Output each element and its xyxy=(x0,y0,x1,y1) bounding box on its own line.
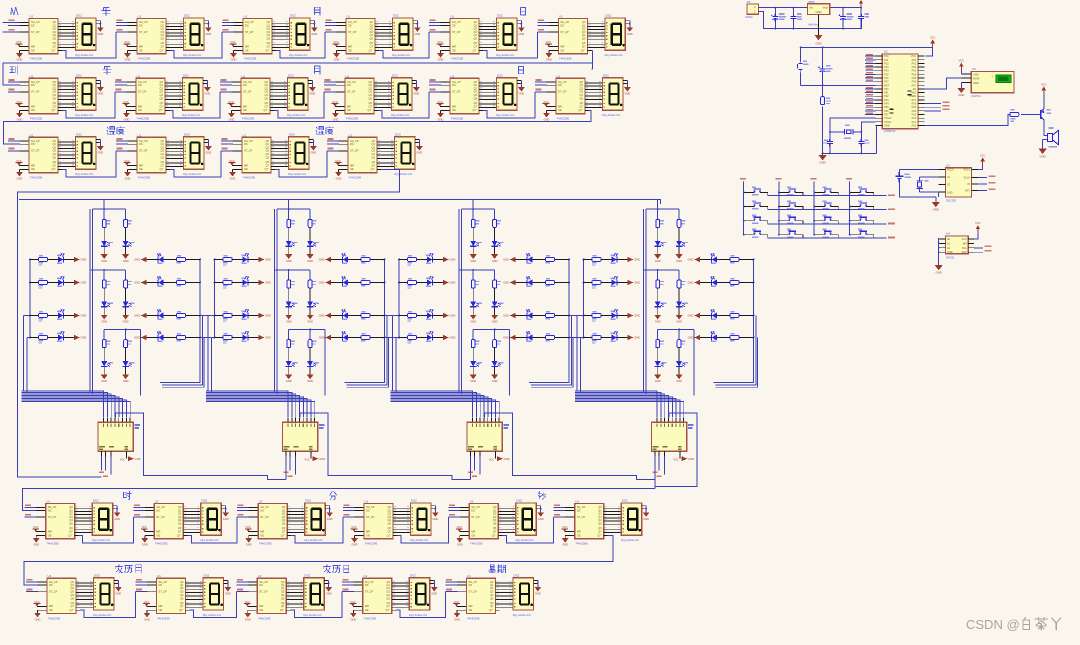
svg-text:Volt Reg: Volt Reg xyxy=(808,22,819,26)
label row2-caption2 xyxy=(315,66,320,74)
svg-text:Vout: Vout xyxy=(823,6,829,10)
wire keypad column 2 xyxy=(778,182,780,235)
svg-text:ALE: ALE xyxy=(911,92,916,95)
button S12 keypad r3c3 xyxy=(814,220,822,222)
svg-text:VCC2: VCC2 xyxy=(947,169,954,172)
wire keypad row bus 1 xyxy=(768,195,887,197)
74HC595 U25 + 7-seg display module row5-1 xyxy=(26,573,122,621)
wire LED-block4 cluster3 top xyxy=(657,329,694,331)
resistor + LED row LED-block2 L3 xyxy=(214,310,271,322)
svg-text:P14: P14 xyxy=(884,70,889,73)
resistor + LED row LED-block4 L4 xyxy=(583,332,640,344)
svg-text:U4: U4 xyxy=(946,232,950,236)
74HC595 U12 + 7-seg display module row2-6 xyxy=(535,74,631,122)
resistor + LED row LED-block2 R3 xyxy=(319,310,386,320)
label row5-caption1 xyxy=(324,565,331,573)
resistor + LED + ground branch LED-block3 c1a xyxy=(470,209,482,263)
button S6 keypad r2c1 xyxy=(744,206,752,208)
ground DHT11 xyxy=(960,83,962,88)
VCC power rail arrow xyxy=(860,3,862,8)
shift register driver U34 74HC595 LED-block4 xyxy=(652,413,698,477)
button S2 keypad r1c1 xyxy=(744,192,752,194)
resistor + LED + ground branch LED-block2 c3a xyxy=(285,330,297,384)
wire LED-block4 gap risers xyxy=(716,316,758,388)
wire serial row3-1 to row3-2 xyxy=(62,151,116,177)
svg-text:P03: P03 xyxy=(912,70,917,73)
transistor Q1 PNP xyxy=(1040,110,1042,119)
label row1-caption3 xyxy=(521,8,526,15)
wire R2 to transistor base xyxy=(1021,113,1041,115)
capacitor C1 xyxy=(829,132,831,139)
wire LED-block4 frame xyxy=(643,209,694,395)
74HC595 U10 + 7-seg display module row2-4 xyxy=(324,74,420,122)
wire driver chain block2 to block3 xyxy=(328,457,470,480)
button S3 keypad r1c2 xyxy=(779,192,787,194)
wire LED-block1 left bus xyxy=(29,260,31,338)
wire driver chain block3 to block4 xyxy=(513,457,655,480)
svg-text:DS1302: DS1302 xyxy=(946,199,957,203)
svg-text:GND: GND xyxy=(973,81,979,85)
button S9 keypad r2c4 xyxy=(850,206,858,208)
resistor + LED + ground branch LED-block2 c2b xyxy=(307,270,319,324)
wire LED row interconnects xyxy=(200,316,584,338)
svg-text:P06: P06 xyxy=(912,81,917,84)
resistor + LED row LED-block3 L4 xyxy=(398,332,455,344)
74HC595 U4 + 7-seg display module row1-4 xyxy=(325,14,421,62)
svg-text:P11: P11 xyxy=(884,59,889,62)
svg-text:P07: P07 xyxy=(912,84,917,87)
wire LED-block3 bus fan xyxy=(391,391,500,417)
svg-text:CON2: CON2 xyxy=(745,15,753,19)
wire LED-block4 bus fan xyxy=(575,391,684,417)
svg-text:PSEN: PSEN xyxy=(909,95,916,98)
svg-text:AT89C52: AT89C52 xyxy=(884,129,896,133)
74HC595 U29 + 7-seg display module row5-5 xyxy=(446,573,542,621)
svg-text:GND: GND xyxy=(815,42,821,46)
svg-text:DATA: DATA xyxy=(973,76,980,80)
wire serial row1-2 to row1-3 xyxy=(170,32,222,58)
svg-text:GND: GND xyxy=(884,124,890,127)
wire driver chain block1 to block2 xyxy=(144,457,286,480)
wire keypad row bus 3 xyxy=(768,223,887,225)
resistor + LED + ground branch LED-block2 c1a xyxy=(285,209,297,263)
resistor + LED + ground branch LED-block3 c1b xyxy=(491,209,503,263)
svg-text:P21: P21 xyxy=(912,121,917,124)
wire serial row5-4 to row5-5 xyxy=(396,592,446,618)
wire LED-block3 cluster3 top xyxy=(473,329,510,331)
74HC595 U5 + 7-seg display module row1-5 xyxy=(429,14,525,62)
svg-text:P15: P15 xyxy=(884,73,889,76)
wire LED-block2 cluster1 top xyxy=(277,208,310,210)
wire MCU to DHT11 data xyxy=(925,78,962,89)
wire chain block4 to row4 xyxy=(23,457,698,511)
svg-text:P1: P1 xyxy=(747,0,751,4)
resistor + LED + ground branch LED-block1 c1a xyxy=(101,209,113,263)
wire LED-block4 right bus xyxy=(714,260,754,383)
74HC595 U26 + 7-seg display module row5-2 xyxy=(136,573,232,621)
74HC595 U9 + 7-seg display module row2-3 xyxy=(220,74,316,122)
VCC DS1302 xyxy=(978,165,983,169)
wire LED-block3 left bus xyxy=(398,260,400,338)
ground reset xyxy=(818,155,826,160)
svg-text:IO: IO xyxy=(967,183,970,186)
svg-text:U3: U3 xyxy=(946,164,950,168)
resistor + LED row LED-block2 L4 xyxy=(214,332,271,344)
74HC595 U8 + 7-seg display module row2-2 xyxy=(115,74,211,122)
74HC595 U3 + 7-seg display module row1-3 xyxy=(222,14,318,62)
svg-text:P02: P02 xyxy=(912,66,917,69)
ground speaker xyxy=(1038,149,1046,154)
wire XTAL1 xyxy=(861,122,875,132)
74HC595 U2 + 7-seg display module row1-2 xyxy=(116,14,212,62)
74HC595 U7 + 7-seg display module row2-1 xyxy=(8,74,104,122)
wire LED-block2 left bus xyxy=(214,260,216,338)
svg-text:P36: P36 xyxy=(884,110,889,113)
svg-text:RST: RST xyxy=(965,190,970,193)
wire keypad row bus 2 xyxy=(768,209,887,211)
svg-text:WP: WP xyxy=(963,243,967,246)
resistor + LED + ground branch LED-block1 c2b xyxy=(122,270,134,324)
resistor + LED row LED-block1 L2 xyxy=(29,277,86,289)
crystal Y1 xyxy=(830,131,862,133)
VCC 24C02 xyxy=(974,233,978,239)
svg-text:GND: GND xyxy=(816,10,822,14)
svg-text:P12: P12 xyxy=(884,62,889,65)
label row3-caption0 xyxy=(107,127,115,135)
label row5-caption0 xyxy=(116,565,123,573)
wire serial row2-1 to row2-2 xyxy=(62,92,115,118)
wire LED-block1 cluster2 top xyxy=(90,269,126,271)
74HC595 U22 + 7-seg display module row4-4 xyxy=(343,499,439,547)
wire LED-block3 gap risers xyxy=(531,316,573,388)
74HC595 U6 + 7-seg display module row1-6 xyxy=(537,14,633,62)
74HC595 U23 + 7-seg display module row4-5 xyxy=(448,499,544,547)
wire serial row1-3 to row1-4 xyxy=(276,32,325,58)
resistor + LED row LED-block1 R2 xyxy=(134,277,201,287)
resistor + LED + ground branch LED-block1 c1b xyxy=(122,209,134,263)
resistor + LED row LED-block4 R1 xyxy=(688,254,755,264)
wire keypad column 3 xyxy=(813,182,815,235)
wire serial row4-5 to row4-6 xyxy=(502,517,553,543)
resistor + LED + ground branch LED-block1 c3a xyxy=(101,330,113,384)
label row1-caption2 xyxy=(315,7,320,15)
resistor + LED row LED-block1 L3 xyxy=(29,310,86,322)
resistor + LED row LED-block2 L1 xyxy=(214,254,271,266)
resistor + LED + ground branch LED-block3 c3b xyxy=(491,330,503,384)
resistor + LED row LED-block1 R3 xyxy=(134,310,201,320)
svg-text:P31: P31 xyxy=(884,92,889,95)
wire keypad column 1 xyxy=(743,182,745,235)
svg-text:SCL: SCL xyxy=(962,247,967,250)
svg-text:P20: P20 xyxy=(912,124,917,127)
wire serial row5-3 to row5-4 xyxy=(290,592,342,618)
speaker LS1 xyxy=(1048,131,1059,145)
svg-text:P25: P25 xyxy=(912,106,917,109)
svg-text:P22: P22 xyxy=(912,117,917,120)
label row1-caption0 xyxy=(11,7,18,14)
svg-text:VCC: VCC xyxy=(911,55,916,58)
wire serial row5-1 to row5-2 xyxy=(80,592,136,618)
svg-text:GND: GND xyxy=(958,93,964,97)
74HC595 U28 + 7-seg display module row5-4 xyxy=(342,573,438,621)
svg-text:24C02: 24C02 xyxy=(946,255,955,259)
wire LED-block1 bus fan xyxy=(22,391,131,417)
svg-text:P01: P01 xyxy=(912,62,917,65)
resistor + LED + ground branch LED-block3 c2b xyxy=(491,270,503,324)
wire reset to RST pin xyxy=(801,84,876,86)
svg-text:XTAL2: XTAL2 xyxy=(884,117,892,120)
VCC DHT11 xyxy=(960,71,962,74)
resistor + LED row LED-block4 L3 xyxy=(583,310,640,322)
wire LED section top bus xyxy=(19,200,661,204)
resistor R2 xyxy=(1010,113,1019,117)
label row2-caption0 xyxy=(10,66,18,74)
svg-text:GND: GND xyxy=(947,192,953,195)
wire row1 input stubs xyxy=(3,22,9,32)
shift register driver U31 74HC595 LED-block1 xyxy=(98,413,144,477)
VCC mcu xyxy=(930,35,936,47)
svg-text:GND: GND xyxy=(947,251,953,254)
wire chain row3 to LED drivers xyxy=(18,169,400,477)
svg-text:P17: P17 xyxy=(884,81,889,84)
button S17 keypad r4c4 xyxy=(850,234,858,236)
svg-text:P27: P27 xyxy=(912,99,917,102)
74HC595 U14 + 7-seg display module row3-2 xyxy=(116,133,212,181)
wire LED-block3 cluster1 top xyxy=(461,208,494,210)
button S10 keypad r3c1 xyxy=(744,220,752,222)
svg-text:XTAL1: XTAL1 xyxy=(884,121,892,124)
wire LED-block2 gap risers xyxy=(347,316,389,388)
resistor + LED row LED-block2 R2 xyxy=(319,277,386,287)
resistor + LED + ground branch LED-block3 c2a xyxy=(470,270,482,324)
svg-text:VCC: VCC xyxy=(962,238,967,241)
label row4-caption1 xyxy=(330,492,337,500)
wire serial row5-2 to row5-3 xyxy=(190,592,237,618)
wire serial row3-2 to row3-3 xyxy=(170,151,221,177)
wire power rail bottom xyxy=(759,12,862,29)
wire LED-block4 left bus xyxy=(583,260,585,338)
svg-text:U6: U6 xyxy=(972,67,976,71)
wire LED-block1 gap risers xyxy=(162,316,204,388)
resistor + LED row LED-block4 L2 xyxy=(583,277,640,289)
svg-text:P24: P24 xyxy=(912,110,917,113)
svg-text:P26: P26 xyxy=(912,103,917,106)
resistor + LED + ground branch LED-block4 c1a xyxy=(654,209,666,263)
svg-text:GND: GND xyxy=(819,161,825,165)
ground 24C02 xyxy=(935,265,943,270)
wire LED-block3 cluster2 top xyxy=(459,269,495,271)
button S16 keypad r4c3 xyxy=(814,234,822,236)
svg-text:P35: P35 xyxy=(884,106,889,109)
microcontroller U2 AT89C52 xyxy=(882,54,918,129)
wire LED-block4 cluster2 top xyxy=(643,269,679,271)
resistor + LED row LED-block2 R1 xyxy=(319,254,386,264)
wire LED-block2 right bus xyxy=(345,260,385,383)
74HC595 U11 + 7-seg display module row2-5 xyxy=(429,74,525,122)
wire serial row1-5 to row1-6 xyxy=(483,32,537,58)
svg-text:P30: P30 xyxy=(884,88,889,91)
resistor + LED row LED-block1 L1 xyxy=(29,254,86,266)
capacitor C4 xyxy=(771,14,778,21)
svg-text:RST: RST xyxy=(884,84,889,87)
resistor + LED + ground branch LED-block4 c1b xyxy=(676,209,688,263)
resistor + LED row LED-block4 R4 xyxy=(688,332,755,342)
button S15 keypad r4c2 xyxy=(779,234,787,236)
resistor + LED + ground branch LED-block4 c3b xyxy=(676,330,688,384)
resistor + LED row LED-block1 L4 xyxy=(29,332,86,344)
VCC transistor xyxy=(1043,94,1045,108)
resistor + LED row LED-block3 R1 xyxy=(503,254,570,264)
ground DS1302 xyxy=(935,197,937,202)
wire LED-block1 right bus xyxy=(160,260,200,383)
wire LED-block4 cluster1 top xyxy=(646,208,679,210)
resistor + LED row LED-block1 R1 xyxy=(134,254,201,264)
label row2-caption3 xyxy=(519,66,524,73)
74HC595 U21 + 7-seg display module row4-3 xyxy=(237,499,333,547)
label row2-caption1 xyxy=(103,66,111,74)
connector P1 xyxy=(747,4,758,14)
resistor + LED row LED-block3 L2 xyxy=(398,277,455,289)
resistor + LED row LED-block2 L2 xyxy=(214,277,271,289)
label row4-caption0 xyxy=(123,492,131,500)
label row5-caption2 xyxy=(489,565,496,573)
button S4 keypad r1c3 xyxy=(814,192,822,194)
button S13 keypad r3c4 xyxy=(850,220,858,222)
74HC595 U19 + 7-seg display module row4-1 xyxy=(25,499,121,547)
svg-text:P33: P33 xyxy=(884,99,889,102)
reset button S1 xyxy=(800,47,802,85)
wire chain row1 to row2 xyxy=(3,51,592,86)
wire MCU P26 P25 P24 stubs xyxy=(925,103,941,105)
wire MCU P20 to speaker resistor xyxy=(925,114,1010,125)
resistor + LED + ground branch LED-block4 c3a xyxy=(654,330,666,384)
svg-text:CSDN @: CSDN @ xyxy=(966,617,1020,632)
wire chain row2 to row3 xyxy=(3,110,591,144)
svg-text:P32: P32 xyxy=(884,95,889,98)
wire serial row1-1 to row1-2 xyxy=(62,32,116,58)
resistor + LED row LED-block3 R2 xyxy=(503,277,570,287)
resistor R1 xyxy=(822,85,824,96)
wire LED-block2 cluster3 top xyxy=(288,329,325,331)
resistor + LED row LED-block3 R3 xyxy=(503,310,570,320)
button S5 keypad r1c4 xyxy=(850,192,858,194)
resistor + LED + ground branch LED-block2 c3b xyxy=(307,330,319,384)
wire crystal ground rail xyxy=(823,125,877,153)
button S7 keypad r2c2 xyxy=(779,206,787,208)
svg-text:P05: P05 xyxy=(912,77,917,80)
EEPROM U4 24C02 xyxy=(946,236,969,254)
wire 24C02 SCL SDA xyxy=(974,247,983,249)
wire serial row2-5 to row2-6 xyxy=(483,92,535,118)
svg-text:P23: P23 xyxy=(912,114,917,117)
74HC595 U13 + 7-seg display module row3-1 xyxy=(8,133,104,181)
wire serial row4-3 to row4-4 xyxy=(291,517,343,543)
74HC595 U1 + 7-seg display module row1-1 xyxy=(8,14,104,62)
resistor + LED row LED-block3 L3 xyxy=(398,310,455,322)
svg-text:GND: GND xyxy=(1039,154,1045,158)
svg-text:GND: GND xyxy=(933,207,939,211)
wire serial row4-2 to row4-3 xyxy=(187,517,237,543)
wire power rail top xyxy=(759,7,862,9)
svg-text:SDA: SDA xyxy=(962,251,967,254)
wire serial row1-4 to row1-5 xyxy=(379,32,429,58)
wire LED-block3 frame xyxy=(459,209,510,395)
wire serial row2-3 to row2-4 xyxy=(274,92,324,118)
crystal Y2 xyxy=(920,177,939,192)
voltage regulator U5 xyxy=(808,4,830,15)
resistor + LED row LED-block4 L1 xyxy=(583,254,640,266)
resistor + LED row LED-block3 L1 xyxy=(398,254,455,266)
resistor + LED + ground branch LED-block2 c2a xyxy=(285,270,297,324)
resistor + LED + ground branch LED-block1 c2a xyxy=(101,270,113,324)
resistor + LED row LED-block4 R3 xyxy=(688,310,755,320)
svg-text:7805: 7805 xyxy=(808,0,815,4)
wire LED-block2 bus fan xyxy=(206,391,315,417)
wire LED-block1 frame xyxy=(90,209,141,395)
svg-text:VDD: VDD xyxy=(973,72,979,76)
wire LED-block1 cluster1 top xyxy=(92,208,125,210)
button S11 keypad r3c2 xyxy=(779,220,787,222)
svg-text:U2: U2 xyxy=(884,50,888,54)
resistor + LED + ground branch LED-block3 c3a xyxy=(470,330,482,384)
resistor + LED row LED-block1 R4 xyxy=(134,332,201,342)
wire DHT11 pins xyxy=(961,74,971,83)
wire collector to speaker xyxy=(1043,120,1048,149)
wire XTAL2 xyxy=(830,118,876,132)
shift register driver U33 74HC595 LED-block3 xyxy=(467,413,513,477)
button S8 keypad r2c3 xyxy=(814,206,822,208)
capacitor C6 xyxy=(839,14,846,21)
DHT11 sensor module U6 xyxy=(971,71,1014,92)
wire LED-block2 cluster2 top xyxy=(274,269,310,271)
svg-text:VCC1: VCC1 xyxy=(963,169,970,172)
svg-text:P04: P04 xyxy=(912,73,917,76)
label row4-caption2 xyxy=(538,492,546,500)
74HC595 U16 + 7-seg display module row3-4 xyxy=(327,133,423,181)
74HC595 U20 + 7-seg display module row4-2 xyxy=(133,499,229,547)
svg-text:SCLK: SCLK xyxy=(963,177,970,180)
svg-text:DHT11: DHT11 xyxy=(972,94,982,98)
svg-text:P34: P34 xyxy=(884,103,889,106)
capacitor C7 xyxy=(858,14,864,21)
capacitor C2 xyxy=(860,132,862,139)
button S14 keypad r4c1 xyxy=(744,234,752,236)
wire 24C02 address gnd xyxy=(938,239,940,265)
label row1-caption1 xyxy=(102,8,110,16)
wire serial row4-4 to row4-5 xyxy=(397,517,448,543)
battery BT1 xyxy=(899,170,938,173)
svg-text:P37: P37 xyxy=(884,114,889,117)
capacitor C5 xyxy=(790,14,796,21)
label row3-caption1 xyxy=(316,127,324,135)
wire LED-block2 frame xyxy=(274,209,325,395)
ground regulator xyxy=(818,15,820,35)
resistor + LED row LED-block3 R4 xyxy=(503,332,570,342)
svg-text:EA: EA xyxy=(913,88,917,91)
svg-text:Vin: Vin xyxy=(809,6,813,10)
wire serial row2-2 to row2-3 xyxy=(169,92,220,118)
svg-text:GND: GND xyxy=(936,271,942,275)
wire chain row4 to row5 xyxy=(24,536,613,586)
wire LED-block3 right bus xyxy=(529,260,569,383)
svg-text:P16: P16 xyxy=(884,77,889,80)
resistor + LED + ground branch LED-block1 c3b xyxy=(122,330,134,384)
mcu overline pin marks xyxy=(890,109,894,110)
capacitor C3 reset xyxy=(822,47,824,85)
resistor + LED + ground branch LED-block4 c2a xyxy=(654,270,666,324)
wire keypad row bus 4 xyxy=(768,237,887,239)
74HC595 U15 + 7-seg display module row3-3 xyxy=(221,133,317,181)
